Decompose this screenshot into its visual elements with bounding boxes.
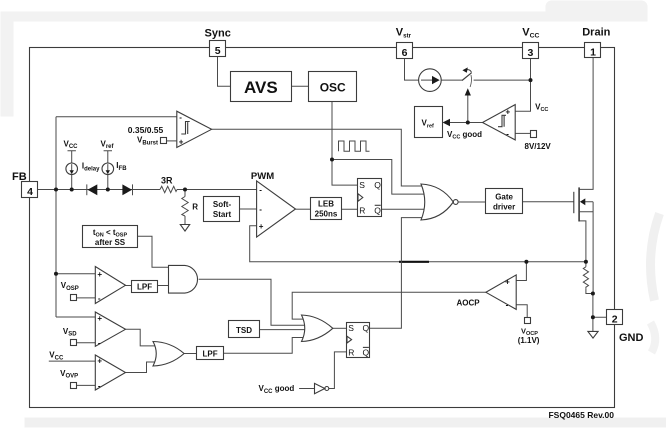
node: Idelay junction xyxy=(70,188,74,192)
comparator vcc-good xyxy=(483,105,516,140)
wire: vcc good node up to switch control xyxy=(467,96,469,123)
svg-text:R: R xyxy=(348,347,354,357)
comparator Vosp xyxy=(95,267,125,304)
LPF1 block xyxy=(132,281,158,293)
svg-text:5: 5 xyxy=(215,45,221,57)
node: Ifb junction xyxy=(106,188,110,192)
svg-text:GND: GND xyxy=(619,332,644,344)
OR gate U3 (Vsd/Vovp) xyxy=(153,342,184,367)
node: AOCP tap xyxy=(524,260,528,264)
svg-text:-: - xyxy=(98,294,101,303)
wire: burst comparator output to NOR input 1 xyxy=(212,129,428,186)
wire: FB node up to burst comparator minus input xyxy=(56,116,177,118)
svg-text:8V/12V: 8V/12V xyxy=(525,142,552,151)
wire: Vsd output to OR2 top input xyxy=(126,329,161,346)
svg-text:Q: Q xyxy=(363,347,370,357)
wire: AND output to OR3 input 2 xyxy=(199,279,309,325)
Soft-Start block xyxy=(204,197,240,222)
waveform pulses icon xyxy=(339,141,370,151)
svg-text:+: + xyxy=(97,270,102,279)
wire: latch2 Q up to NOR input 4 xyxy=(370,218,428,329)
wire: pin6 to startup current source xyxy=(405,59,419,80)
svg-text:-: - xyxy=(506,130,509,139)
wire: PWM plus input sense line xyxy=(250,226,586,262)
wire: FB rail vertical xyxy=(55,117,57,317)
wire: drain pin1 down to MOSFET xyxy=(579,58,593,189)
latch U7 (PWM S/R) xyxy=(358,179,382,217)
wire: FB line right segment to PWM xyxy=(177,189,257,191)
AND gate U2 xyxy=(169,265,198,293)
svg-text:Start: Start xyxy=(213,210,232,219)
svg-text:-: - xyxy=(259,186,262,195)
node: vcc good branch xyxy=(466,121,470,125)
svg-text:after SS: after SS xyxy=(95,238,126,247)
test square Vocp xyxy=(525,318,531,324)
wire: FB line left segment xyxy=(38,189,160,191)
svg-text:Q: Q xyxy=(363,323,370,333)
svg-text:driver: driver xyxy=(493,203,515,212)
watermark bottom strip xyxy=(25,418,666,428)
latch U8 (protection S/R) xyxy=(347,323,370,358)
wire: soft-start to PWM middle input xyxy=(240,208,257,210)
pin 2 box xyxy=(607,310,623,326)
wire: Vcc line to Vovp plus input xyxy=(49,360,96,362)
wire: OR3 output to latch2 S xyxy=(333,327,347,329)
watermark top strip xyxy=(1,12,648,22)
svg-text:4: 4 xyxy=(27,186,33,198)
svg-text:+: + xyxy=(97,356,102,365)
svg-text:+: + xyxy=(259,222,264,231)
svg-text:OSC: OSC xyxy=(320,80,346,94)
wire: Vcc good label to inverter input xyxy=(299,388,314,390)
svg-text:Sync: Sync xyxy=(205,27,231,39)
svg-text:Drain: Drain xyxy=(582,26,610,38)
tON tOSP after SS block xyxy=(83,226,138,248)
wire: LPF2 output to OR3 input 4 xyxy=(224,338,309,354)
comparator burst (0.35/0.55) xyxy=(177,111,212,147)
ground under R xyxy=(180,225,189,232)
svg-text:Soft-: Soft- xyxy=(213,200,232,209)
wire: pin5 to AVS xyxy=(218,57,231,87)
wire: OR2 output to LPF2 xyxy=(184,353,196,355)
svg-text:S: S xyxy=(348,323,354,333)
comparator Vovp xyxy=(95,355,125,391)
wire: tON box to AND input 1 xyxy=(138,236,169,267)
wire: sense line thick segment xyxy=(399,261,429,263)
svg-text:LPF: LPF xyxy=(203,349,218,358)
wire: pin3 down to comparator plus xyxy=(515,59,530,111)
watermark left stub xyxy=(1,12,14,117)
inverter U6 (vcc good) xyxy=(315,383,329,393)
pin 5 box xyxy=(210,41,226,58)
TSD block xyxy=(229,321,260,338)
LEB 250ns block xyxy=(311,198,342,220)
wire: rail to Vsd plus input xyxy=(56,316,95,318)
OSC block xyxy=(309,72,357,102)
current source Ifb xyxy=(102,163,114,175)
svg-text:0.35/0.55: 0.35/0.55 xyxy=(128,125,164,135)
wire: osc node down to latch1 S xyxy=(332,160,357,186)
svg-text:-: - xyxy=(98,339,101,348)
svg-text:LEB: LEB xyxy=(318,199,334,208)
wire: inverter output up to latch2 R xyxy=(329,352,346,389)
wire: AVS to OSC xyxy=(292,85,309,87)
node: FB rail junction xyxy=(54,188,58,192)
svg-text:+: + xyxy=(97,314,102,323)
wire: Vovp output to OR2 bottom input xyxy=(126,362,161,373)
svg-text:AOCP: AOCP xyxy=(457,299,481,308)
wire: Vosp comparator to LPF1 xyxy=(126,285,132,287)
svg-text:-: - xyxy=(506,301,509,310)
wire: OSC down to node xyxy=(331,102,333,160)
wire: 3R node down to R xyxy=(184,190,186,197)
pin 1 box xyxy=(585,43,601,59)
node: 3R/R divider xyxy=(183,188,187,192)
MOSFET Q1 xyxy=(574,187,593,221)
svg-text:R: R xyxy=(359,205,365,215)
watermark right arc xyxy=(651,214,660,301)
wire: Vosp rail branch to plus input xyxy=(56,273,95,275)
svg-text:AVS: AVS xyxy=(244,78,278,97)
wire: Vsd square to minus input xyxy=(77,342,96,344)
wire: Vcc supply bar to Idelay source xyxy=(68,151,76,190)
wire: MOSFET body down xyxy=(592,202,594,294)
svg-text:(1.1V): (1.1V) xyxy=(518,336,540,345)
node: sense top xyxy=(584,260,588,264)
svg-text:3: 3 xyxy=(527,47,533,59)
resistor sense xyxy=(583,267,588,289)
wire: AOCP output long line to OR3 xyxy=(292,292,486,319)
svg-text:R: R xyxy=(192,202,198,211)
wire: switch to Vcc node xyxy=(474,79,531,81)
node: pin2 junction xyxy=(591,315,595,319)
svg-text:6: 6 xyxy=(402,47,408,59)
resistor 3R xyxy=(160,186,177,192)
wire: LEB to latch1 R xyxy=(341,208,357,210)
wire: Vosp square to minus input xyxy=(77,297,96,299)
pin 6 box xyxy=(397,43,413,60)
node: OSC branch xyxy=(330,158,334,162)
resistor R xyxy=(182,197,188,217)
test square Vburst xyxy=(161,138,167,144)
comparator Vsd xyxy=(95,312,125,348)
IC outline box xyxy=(30,48,615,408)
node: Vcc line xyxy=(529,78,533,82)
comparator PWM xyxy=(257,181,296,237)
wire: comparator output to Vref box xyxy=(450,122,483,124)
wire: MOSFET source down to sense node xyxy=(579,221,586,267)
test square Vovp xyxy=(71,383,77,389)
test square 8V/12V xyxy=(531,131,537,138)
svg-text:+: + xyxy=(179,138,184,147)
svg-text:-: - xyxy=(259,205,262,214)
svg-text:Q: Q xyxy=(374,205,381,215)
diode D2 xyxy=(122,184,132,195)
current source startup xyxy=(419,69,442,92)
wire: NOR output to gate driver xyxy=(458,201,485,203)
wire: R bottom to ground xyxy=(184,216,186,225)
watermark corner swath top-right xyxy=(546,1,648,22)
switch arc linkage xyxy=(470,75,471,87)
svg-text:S: S xyxy=(359,180,365,190)
wire square to burst plus xyxy=(167,140,177,142)
AVS block xyxy=(231,72,292,102)
svg-text:1: 1 xyxy=(590,46,596,58)
svg-text:250ns: 250ns xyxy=(315,210,338,219)
wire: gate driver to MOSFET gate xyxy=(523,201,574,203)
svg-text:FSQ0465 Rev.00: FSQ0465 Rev.00 xyxy=(548,410,614,420)
ground sense xyxy=(588,331,598,338)
switch blade xyxy=(462,73,472,81)
wire: TSD output to OR3 input 3 xyxy=(259,329,308,331)
diode D1 xyxy=(87,184,98,195)
wire: Vovp square to minus input xyxy=(77,384,96,386)
LPF2 block xyxy=(197,347,224,360)
node: Vosp tap xyxy=(54,272,58,276)
svg-text:LPF: LPF xyxy=(137,282,152,291)
test square Vosp xyxy=(71,295,77,301)
switch curved arrow xyxy=(467,70,472,73)
svg-text:Q: Q xyxy=(374,180,381,190)
wire: comparator minus to 8V/12V square xyxy=(515,132,531,134)
svg-text:-: - xyxy=(98,382,101,391)
wire: AOCP plus input tap xyxy=(516,262,526,281)
node: sense bottom xyxy=(591,292,595,296)
wire: PWM output to LEB xyxy=(296,208,311,210)
pin 3 box xyxy=(523,43,539,60)
wire: Vref supply bar to Ifb source xyxy=(104,151,112,190)
test square Vsd xyxy=(71,340,77,346)
switch control arrow xyxy=(465,88,471,95)
svg-text:Gate: Gate xyxy=(495,193,513,202)
svg-text:+: + xyxy=(505,278,510,287)
svg-text:TSD: TSD xyxy=(236,326,252,335)
wire: sense node to pin2 and ground xyxy=(593,294,607,332)
current source Idelay xyxy=(66,163,78,175)
arrow into Vref box xyxy=(443,119,451,126)
svg-text:FB: FB xyxy=(12,171,27,183)
svg-text:PWM: PWM xyxy=(251,171,274,182)
wire: LPF1 to AND input 2 xyxy=(157,285,168,287)
NOR gate U5 xyxy=(421,184,458,220)
Gate driver block xyxy=(486,189,523,214)
wire: current source to switch xyxy=(441,79,462,81)
wire: latch1 Qbar to NOR input 3 xyxy=(381,208,427,210)
Vref block xyxy=(415,107,443,138)
wire: osc node right then down to NOR input 2 xyxy=(332,160,428,195)
wire: sense resistor bottom jog xyxy=(586,289,593,294)
comparator AOCP xyxy=(486,275,516,310)
pin 4 box xyxy=(22,182,38,198)
svg-text:2: 2 xyxy=(612,313,618,325)
svg-text:3R: 3R xyxy=(161,175,173,185)
wire: AOCP minus input to Vocp square xyxy=(516,305,527,318)
OR gate U4 (protection) xyxy=(302,315,333,342)
svg-text:+: + xyxy=(506,108,511,117)
svg-text:-: - xyxy=(179,113,182,122)
